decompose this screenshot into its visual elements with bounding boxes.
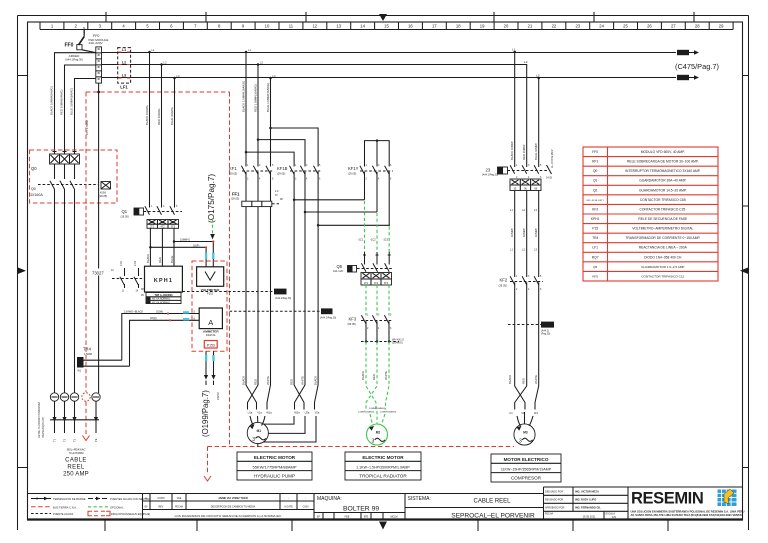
terminal strip ARKED X1	[65, 47, 101, 83]
svg-text:3: 3	[372, 439, 375, 445]
wire to KF1B pole1	[246, 152, 294, 166]
phase sequence relay KPH1	[141, 266, 182, 304]
svg-text:DESCRIPCION DE CAMBIOS TO MEDI: DESCRIPCION DE CAMBIOS TO MEDIA	[211, 506, 256, 509]
node L2 tap	[160, 63, 163, 66]
svg-text:COPI3: COPI3	[157, 497, 165, 500]
node branch to KF1B pole3	[269, 127, 272, 130]
svg-text:ING. RUDY LUPO: ING. RUDY LUPO	[575, 497, 596, 501]
svg-text:11KW~15HP/3565RPM/19AMP: 11KW~15HP/3565RPM/19AMP	[501, 467, 552, 471]
svg-text:9FE: 9FE	[364, 516, 369, 519]
svg-text:RELE DE SECUENCIA DE FASE: RELE DE SECUENCIA DE FASE	[638, 217, 688, 221]
svg-text:(O199/Pag.7): (O199/Pag.7)	[201, 390, 210, 437]
svg-text:WHITE: WHITE	[534, 375, 538, 384]
node voltmeter tap 2	[149, 246, 152, 249]
svg-text:RED: RED	[522, 378, 526, 384]
svg-text:28: 28	[695, 24, 700, 29]
contactor KF2	[499, 275, 544, 291]
node branch to KF1B pole1	[245, 151, 248, 154]
svg-text:10A–C2K: 10A–C2K	[333, 270, 344, 273]
fuse FF0 feed wire from ruler	[83, 30, 85, 37]
svg-text:P15: P15	[592, 227, 598, 231]
svg-text:RED 1.0MM²(16AWG): RED 1.0MM²(16AWG)	[254, 84, 258, 112]
breaker Q0 terminal box	[50, 152, 80, 165]
svg-text:25: 25	[623, 24, 628, 29]
svg-text:L2: L2	[524, 60, 528, 64]
node branch to KF1B pole2	[257, 138, 260, 141]
wire phase B to Q0	[65, 65, 96, 154]
TOPLEFT	[65, 27, 719, 167]
svg-text:02(P): 02(P)	[193, 243, 199, 247]
svg-text:PE: PE	[94, 438, 98, 442]
svg-text:14: 14	[360, 24, 365, 29]
svg-text:PUENTE AGUAS: PUENTE AGUAS	[53, 512, 73, 516]
svg-text:(A44.1/Pag.30): (A44.1/Pag.30)	[65, 58, 83, 62]
svg-text:24 05: 24 05	[546, 177, 553, 180]
svg-text:Q1: Q1	[122, 209, 128, 214]
svg-text:FECHA: FECHA	[545, 513, 554, 516]
svg-text:22: 22	[552, 24, 557, 29]
node voltmeter tap 1	[173, 240, 176, 243]
title block frame	[28, 487, 743, 494]
ammeter input wires from TR4	[122, 309, 199, 366]
svg-text:FF0: FF0	[592, 150, 598, 154]
optional wire 1C3 (green dashed)	[388, 227, 390, 253]
bus L1	[102, 48, 700, 56]
svg-text:BLACK 16MM²(6AWG): BLACK 16MM²(6AWG)	[50, 86, 54, 115]
wire to voltmeter pin 03	[150, 247, 206, 266]
svg-text:P153: P153	[207, 343, 215, 347]
KPH1 aux contacts	[111, 261, 145, 293]
svg-text:UNA SOLUCION EN MINERIA SUBTER: UNA SOLUCION EN MINERIA SUBTERRANEA POLI…	[631, 510, 745, 514]
svg-text:REEL: REEL	[67, 465, 85, 471]
wire L2 to KF1	[257, 65, 259, 167]
svg-text:10MM²S: 10MM²S	[180, 238, 190, 242]
Q0CABLEREEL	[30, 53, 130, 478]
svg-text:GUARDAMOTOR 14.5~20 AMP.: GUARDAMOTOR 14.5~20 AMP.	[639, 188, 687, 192]
optional red dashed wire (big enclosure left edge)	[85, 92, 87, 392]
aux contact KS6	[99, 182, 111, 199]
svg-text:INDIQ.OPCION(SEGUN EQUIPAJE): INDIQ.OPCION(SEGUN EQUIPAJE)	[111, 513, 150, 516]
motor1 terminal labels	[248, 411, 320, 415]
svg-text:55KW/1775RPM/88AMP: 55KW/1775RPM/88AMP	[252, 464, 296, 469]
svg-text:WIRE: WIRE	[323, 310, 331, 314]
svg-text:SEPROCAL–EL PORVENIR: SEPROCAL–EL PORVENIR	[451, 513, 535, 520]
svg-text:(A44.1/Pag.30): (A44.1/Pag.30)	[482, 174, 498, 177]
wire L3 down	[538, 78, 540, 167]
svg-text:1.0MM²(16AWG): 1.0MM²(16AWG)	[369, 407, 386, 410]
svg-text:24VDC: 24VDC	[217, 392, 220, 400]
svg-text:CADI: CADI	[303, 506, 309, 509]
svg-text:EF: EF	[144, 506, 148, 509]
svg-text:3: 3	[252, 437, 255, 443]
svg-text:1/N: 1/N	[612, 515, 616, 519]
svg-text:GUARDAMOTOR 1.6~2.5 AMP: GUARDAMOTOR 1.6~2.5 AMP	[641, 265, 684, 269]
svg-text:ING. VICTOR MEZA: ING. VICTOR MEZA	[575, 489, 599, 493]
svg-text:BLACK: BLACK	[508, 375, 512, 384]
wire link KF1B-KF1Y pole1	[294, 199, 364, 201]
svg-text:2T1: 2T1	[150, 226, 155, 229]
svg-text:TR4: TR4	[592, 236, 598, 240]
cable reel label	[63, 448, 89, 478]
svg-text:(29.05): (29.05)	[231, 197, 239, 201]
svg-text:EF: EF	[317, 516, 321, 519]
cable tag dashed with label	[361, 337, 404, 344]
ammeter output wires 24VDC	[204, 351, 220, 400]
svg-text:10MM²: 10MM²	[534, 228, 538, 237]
motor1 return wires U2	[295, 212, 306, 410]
KF1Y output wires	[365, 172, 390, 226]
svg-text:WIRE: WIRE	[276, 290, 284, 294]
svg-text:10: 10	[265, 24, 270, 29]
RESEMIN logo	[631, 489, 745, 517]
svg-text:RED: RED	[158, 257, 162, 263]
svg-text:BLUE 10AWG: BLUE 10AWG	[170, 107, 174, 125]
svg-text:2.04: 2.04	[134, 261, 137, 266]
guard motor Q5 disconnect	[333, 263, 393, 273]
RADIATOR	[333, 201, 404, 445]
svg-text:Q5: Q5	[337, 264, 343, 269]
terminal labels 1.0MM	[358, 407, 397, 414]
svg-text:6T3: 6T3	[384, 282, 389, 285]
svg-text:(09.05): (09.05)	[348, 322, 356, 326]
maquina cell	[314, 496, 405, 520]
svg-text:ING. FERNANDO GIL: ING. FERNANDO GIL	[575, 505, 601, 509]
node L2 tap KF1	[257, 63, 260, 66]
svg-text:KF5: KF5	[592, 274, 598, 278]
svg-text:-: -	[305, 497, 306, 500]
motor1 return wires W2	[294, 200, 304, 410]
svg-text:PUENTES AGUAS CON NEUTRO: PUENTES AGUAS CON NEUTRO	[110, 497, 150, 501]
svg-text:CONTACTOR TRIFASICO C65: CONTACTOR TRIFASICO C65	[640, 198, 686, 202]
svg-text:ELECTRIC MOTOR: ELECTRIC MOTOR	[362, 455, 404, 460]
svg-text:23: 23	[486, 168, 491, 173]
svg-text:MODULO VFD 600V, 40 AMP.: MODULO VFD 600V, 40 AMP.	[641, 150, 685, 154]
svg-text:24: 24	[599, 24, 604, 29]
wire L2 to Q1	[161, 65, 163, 208]
svg-text:13: 13	[336, 24, 341, 29]
contactor KF1	[229, 164, 274, 181]
svg-text:JAIME VIA VOINZ TOKO: JAIME VIA VOINZ TOKO	[218, 496, 248, 500]
optional wires Q5 to KF3 (green dashed)	[366, 285, 389, 316]
svg-text:ELECTRIC MOTOR: ELECTRIC MOTOR	[254, 455, 296, 460]
svg-text:MOTOR ELECTRICO: MOTOR ELECTRICO	[504, 457, 549, 462]
svg-text:26: 26	[647, 24, 652, 29]
fold ticks	[106, 12, 694, 22]
cable reel lead wires with arrows	[50, 401, 99, 442]
big enclosure (red dashed) top and right	[86, 91, 230, 93]
svg-text:A: A	[145, 496, 147, 500]
svg-text:FF0: FF0	[65, 43, 74, 49]
svg-text:70+16X2MM: 70+16X2MM	[69, 451, 84, 455]
svg-text:29: 29	[719, 24, 724, 29]
ammeter cable tag dashed link	[230, 308, 337, 319]
meters enclosure (red dashed)	[192, 261, 227, 351]
svg-text:KF1Y: KF1Y	[348, 166, 359, 171]
svg-text:10MM²: 10MM²	[522, 228, 526, 237]
svg-text:TRANSFORMADOR DE CORRIENTE 0~1: TRANSFORMADOR DE CORRIENTE 0~150 AMP.	[625, 236, 700, 240]
svg-text:VOLTIMETRO~AMPERIMETRO DIGITAL: VOLTIMETRO~AMPERIMETRO DIGITAL	[632, 227, 693, 231]
KF1MOTOR1	[182, 48, 393, 447]
wire phase A to Q0	[55, 53, 96, 154]
contactor KF3	[348, 314, 394, 331]
svg-text:15.05.2011: 15.05.2011	[583, 515, 596, 519]
svg-text:15: 15	[384, 24, 389, 29]
svg-text:-1C1: -1C1	[358, 238, 364, 242]
voltmeter P152	[197, 267, 224, 296]
contactor KF1Y	[348, 164, 393, 181]
svg-text:Q0: Q0	[593, 169, 598, 173]
svg-text:A5 Y/A NORMAL: A5 Y/A NORMAL	[152, 301, 171, 304]
FF0 VSD MODULE label	[88, 34, 108, 45]
enclosure stub arrow (red dashed)	[207, 447, 209, 476]
svg-text:FF1: FF1	[232, 192, 240, 197]
svg-text:2T1: 2T1	[364, 282, 369, 285]
svg-text:1.0MM²(16AWG): 1.0MM²(16AWG)	[380, 411, 397, 414]
svg-text:WIRE: WIRE	[544, 323, 552, 327]
svg-text:U2a: U2a	[305, 411, 310, 415]
svg-text:Q0: Q0	[31, 166, 37, 171]
legend table of components	[583, 147, 718, 281]
svg-text:V2a: V2a	[315, 411, 320, 415]
svg-text:BLUE 1.0MM²(16AWG): BLUE 1.0MM²(16AWG)	[266, 83, 270, 112]
KPH1 cable tag dashed link	[182, 289, 291, 300]
svg-text:(29.05): (29.05)	[348, 172, 356, 176]
svg-text:18: 18	[456, 24, 461, 29]
contactor KF1B	[277, 164, 322, 181]
svg-text:20: 20	[504, 24, 509, 29]
svg-text:W1a: W1a	[266, 411, 272, 415]
svg-text:RED: RED	[372, 374, 376, 380]
svg-text:(29.05): (29.05)	[277, 172, 285, 176]
svg-text:CONTACTOR TRIFASICO C12: CONTACTOR TRIFASICO C12	[641, 274, 684, 278]
svg-text:KPH1: KPH1	[154, 278, 173, 284]
wire link KF1B-KF1Y pole3	[318, 224, 390, 226]
wire L1 down	[514, 52, 516, 167]
svg-text:11: 11	[289, 24, 294, 29]
wire to KF1B pole3	[271, 128, 319, 167]
svg-text:12: 12	[312, 24, 317, 29]
svg-text:(C475/Pag.7): (C475/Pag.7)	[675, 62, 719, 71]
svg-text:GUARDAMOTOR 30A~40 AMP.: GUARDAMOTOR 30A~40 AMP.	[639, 179, 686, 183]
disconnect 23 connector	[482, 149, 554, 179]
svg-text:LF1: LF1	[592, 246, 598, 250]
wire to voltmeter pin 04	[174, 242, 213, 267]
svg-text:1.5MM: 1.5MM	[84, 352, 92, 356]
motor1 feed wires W	[267, 207, 271, 410]
node link1	[293, 199, 296, 202]
optional wire 1C1 (green dashed)	[364, 201, 366, 252]
svg-text:L1: L1	[122, 48, 126, 52]
svg-text:WHITE: WHITE	[266, 376, 270, 385]
svg-text:CONTACTOR TRIFASICO C25.: CONTACTOR TRIFASICO C25.	[639, 207, 686, 211]
svg-text:RED 16MM²(6AWG): RED 16MM²(6AWG)	[60, 90, 64, 115]
signatures table	[544, 487, 629, 520]
enclosure box Q0 (red dashed)	[30, 150, 118, 203]
overload relay RF1	[231, 172, 283, 207]
MOTORLABELS	[237, 452, 561, 482]
bus L3	[102, 74, 700, 81]
svg-text:HARNESS(PILOT): HARNESS(PILOT)	[42, 417, 45, 438]
svg-text:RED 10AWG: RED 10AWG	[157, 109, 161, 125]
current transformer TR4	[77, 347, 130, 373]
svg-text:16: 16	[408, 24, 413, 29]
node L3 tap KF1	[269, 77, 272, 80]
wire stubs into Q5	[365, 252, 390, 265]
svg-text:1.0MM²(16AWG): 1.0MM²(16AWG)	[358, 411, 375, 414]
wire L3 to KF1	[270, 78, 272, 167]
motor leads	[517, 412, 533, 426]
svg-text:-1C2: -1C2	[370, 238, 376, 242]
svg-text:SISTEMA:: SISTEMA:	[408, 496, 431, 502]
motor M2 (green)	[367, 424, 388, 445]
motor1 terminal leads	[250, 416, 265, 426]
svg-text:BLACK 10AWG: BLACK 10AWG	[145, 105, 149, 125]
svg-text:(19.05): (19.05)	[121, 215, 129, 219]
svg-text:WHITE: WHITE	[301, 376, 305, 385]
wire link KF1B-KF1Y pole2	[305, 211, 377, 213]
svg-text:A GATE: A GATE	[284, 506, 293, 509]
svg-text:LOS DIAGRAMAS DE CIRCUITO SERA: LOS DIAGRAMAS DE CIRCUITO SERAN DE ACUER…	[175, 514, 282, 518]
svg-text:3X160A: 3X160A	[30, 193, 43, 197]
svg-text:4T2: 4T2	[374, 282, 379, 285]
node link3	[317, 224, 320, 227]
node L3 tap compressor	[537, 77, 540, 80]
svg-text:VAE: VAE	[177, 497, 182, 500]
wire L1 to Q1	[149, 52, 151, 208]
svg-text:TERMINACION DE BORNE: TERMINACION DE BORNE	[53, 497, 86, 501]
ammeter P153	[199, 308, 222, 348]
svg-text:RF1: RF1	[592, 160, 598, 164]
wires Q1 to KPH1	[150, 228, 174, 266]
svg-text:OPCIONAL: OPCIONAL	[110, 505, 124, 509]
svg-text:BUS TIERRA C N.A.: BUS TIERRA C N.A.	[53, 505, 77, 509]
svg-text:CABLE REEL: CABLE REEL	[473, 499, 511, 505]
breaker Q0 switch blades	[30, 164, 98, 393]
svg-text:W2a: W2a	[294, 411, 300, 415]
svg-text:TROPICAL RADIATOR: TROPICAL RADIATOR	[359, 474, 407, 479]
node L1 tap compressor	[513, 51, 516, 54]
wire 73027 from terminal strip	[85, 83, 112, 393]
svg-text:L2: L2	[122, 60, 126, 64]
KPH1METERS	[86, 48, 514, 481]
svg-text:250 AMP: 250 AMP	[63, 472, 89, 478]
svg-text:TR4: TR4	[83, 347, 92, 352]
node link2	[304, 211, 307, 214]
svg-text:RED: RED	[254, 379, 258, 385]
contactor KF1Y star bridge	[365, 139, 390, 166]
sistema cell	[405, 496, 544, 520]
wire L3 to Q1	[174, 78, 176, 208]
svg-text:P152: P152	[207, 292, 214, 296]
motor M2 label box	[345, 452, 421, 480]
svg-text:-: -	[288, 497, 289, 500]
svg-text:KF1: KF1	[229, 166, 237, 171]
svg-text:BLACK: BLACK	[242, 376, 246, 385]
svg-text:440–220V: 440–220V	[89, 41, 104, 45]
svg-text:6T3: 6T3	[171, 226, 176, 229]
svg-text:L3: L3	[122, 74, 126, 78]
guard motor Q1 disconnect	[121, 205, 183, 219]
LEGENDTABLE	[583, 147, 718, 281]
svg-text:BLACK: BLACK	[314, 376, 318, 385]
svg-text:(29.05): (29.05)	[499, 284, 507, 288]
legend: symbol samples	[31, 497, 150, 517]
svg-text:M1: M1	[257, 429, 262, 433]
svg-text:DIODO 1N4~058 400 CH: DIODO 1N4~058 400 CH	[644, 255, 682, 259]
svg-text:COMPRESOR: COMPRESOR	[511, 476, 542, 481]
TITLEBLOCK	[28, 487, 745, 520]
svg-text:Q0: Q0	[31, 187, 36, 191]
svg-text:A5 Y/A NORMAL: A5 Y/A NORMAL	[152, 298, 171, 301]
svg-text:RESEMIN: RESEMIN	[631, 490, 703, 508]
svg-text:DETAIL B-CROWN 70/16X2MM: DETAIL B-CROWN 70/16X2MM	[38, 402, 41, 438]
wires KF3 to junction	[366, 321, 389, 341]
svg-text:4T2: 4T2	[160, 226, 165, 229]
svg-text:CABLE: CABLE	[65, 458, 87, 464]
svg-text:MCLM: MCLM	[390, 516, 397, 519]
svg-text:1.5MM: 1.5MM	[83, 27, 86, 35]
svg-text:BLUE: BLUE	[170, 256, 174, 263]
motor1 return wires V2	[315, 225, 319, 409]
svg-text:DIBUJADO POR: DIBUJADO POR	[545, 490, 563, 493]
svg-text:M2: M2	[376, 431, 381, 435]
svg-text:02(W): 02(W)	[156, 309, 163, 313]
svg-text:1.5AWG~BLACK: 1.5AWG~BLACK	[124, 309, 144, 313]
KF1B output wires	[294, 172, 318, 226]
svg-text:73027: 73027	[92, 271, 104, 276]
fuse FF0	[65, 27, 96, 53]
svg-text:APROBADO POR: APROBADO POR	[545, 506, 565, 509]
motor M3 label box	[491, 454, 561, 482]
svg-text:REV.: REV.	[158, 506, 164, 509]
node L3 tap	[173, 77, 176, 80]
svg-text:(29.05): (29.05)	[229, 172, 237, 176]
svg-text:FEB: FEB	[345, 516, 350, 519]
svg-text:23: 23	[575, 24, 580, 29]
svg-text:KF1~KF1B~KF1Y: KF1~KF1B~KF1Y	[586, 200, 604, 202]
breaker Q1 box	[147, 220, 179, 229]
svg-text:BLACK: BLACK	[361, 371, 365, 380]
svg-text:02(Q): 02(Q)	[150, 316, 157, 320]
svg-text:-1C3: -1C3	[383, 238, 389, 242]
wire phase C to Q0	[75, 79, 96, 155]
svg-text:INTERRUPTOR TERMOMAGNETICO 3X1: INTERRUPTOR TERMOMAGNETICO 3X160 AMP.	[625, 169, 701, 173]
motor M1 label box	[237, 452, 312, 480]
bus L2	[102, 60, 528, 167]
motor1 feed wires U	[246, 207, 257, 410]
wires KF2 to motor	[515, 282, 525, 409]
radiator motor wires (green dashed)	[366, 342, 376, 410]
svg-text:3: 3	[519, 439, 522, 445]
svg-text:Q1: Q1	[593, 179, 598, 183]
optional feed arrow (green dashed)	[212, 219, 214, 234]
svg-text:AMMETER: AMMETER	[203, 330, 219, 334]
svg-text:W1: W1	[534, 411, 538, 415]
svg-text:BLACK 1.0MM²(16AWG): BLACK 1.0MM²(16AWG)	[242, 81, 246, 112]
svg-text:FECHA: FECHA	[175, 506, 184, 509]
svg-text:HYDRAULIC PUMP: HYDRAULIC PUMP	[254, 474, 295, 479]
svg-text:AV. SANTA ROSA 350 ATE LIMA 03: AV. SANTA ROSA 350 ATE LIMA 03 PERU TELF…	[631, 513, 744, 517]
overload relay box	[510, 179, 541, 191]
svg-text:BLACK 10MM²: BLACK 10MM²	[510, 141, 514, 160]
svg-text:AL–9.5KW 460V: AL–9.5KW 460V	[551, 149, 554, 168]
motor M1	[247, 422, 268, 447]
svg-text:M3: M3	[523, 431, 528, 435]
svg-text:REVISADO POR: REVISADO POR	[545, 498, 563, 501]
svg-text:19: 19	[480, 24, 485, 29]
svg-text:V1a: V1a	[257, 411, 262, 415]
revision mini table	[143, 494, 315, 518]
